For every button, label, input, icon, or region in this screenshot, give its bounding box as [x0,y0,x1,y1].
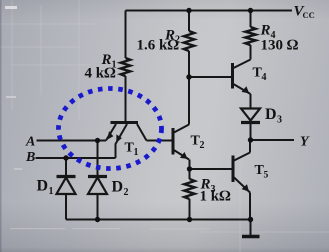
node: T2 emitter / R3 / T5 base [187,166,192,171]
node: T5 emitter / bus [248,217,253,222]
wire: R4 bottom to T4 collector [250,45,252,60]
resistor R4 [245,27,255,45]
svg-text:1: 1 [134,147,139,158]
resistor R3 [189,169,191,179]
node: D2 / bus [95,217,100,222]
transistor T5 [232,156,235,183]
svg-text:A: A [25,134,35,149]
node: T2 collector / T4 base [186,74,191,79]
svg-text:1 kΩ: 1 kΩ [200,189,232,205]
wire: R2 branch top [188,11,190,32]
T1 emitter 2 arrow [116,134,122,142]
highlight ellipse around T1 [59,89,162,169]
wire: T1 collector to T2 base [147,140,173,142]
node: A line / D2 [95,138,100,143]
node: D3 / Y / T5 collector [248,137,253,142]
wire: Vcc top rail [126,10,293,12]
diode D3 [241,109,260,121]
diode D1 [65,158,67,176]
node: R3 / bus [187,217,192,222]
wire: R2 bottom to T2 collector [188,51,190,125]
wire: input B line [36,157,116,159]
svg-text:B: B [25,150,35,165]
wire: ground bus [66,219,251,221]
svg-text:130 Ω: 130 Ω [261,38,299,54]
wire: R1 to T1 base [125,76,127,121]
wire: input A line [37,140,107,142]
resistor R1 [121,58,131,76]
svg-text:D: D [37,178,49,195]
resistor R2 [184,31,194,51]
svg-text:4 kΩ: 4 kΩ [85,66,117,82]
svg-text:D: D [265,106,277,123]
T2 emitter arrow [180,152,188,159]
T4 emitter arrow [242,86,250,93]
emitter arrowheads [107,86,249,191]
svg-text:2: 2 [124,187,129,198]
wire: R1 branch top [125,11,127,59]
svg-text:R: R [260,23,271,39]
svg-text:D: D [112,179,124,196]
node: rail-R2 [186,8,191,13]
transistor T1 (multi-emitter) [111,121,139,124]
svg-text:1: 1 [49,186,54,197]
svg-text:2: 2 [200,140,205,151]
transistor T2 [172,128,175,155]
node: B line / D1 [63,155,68,160]
T5 emitter arrow [242,184,249,191]
wire: output Y line [251,139,295,141]
T1 emitter 1 arrow [107,131,113,140]
wire: R4 branch top [250,11,252,28]
svg-text:1.6 kΩ: 1.6 kΩ [137,38,180,54]
svg-text:3: 3 [277,115,282,126]
svg-text:Y: Y [300,135,310,150]
ground [250,220,252,236]
svg-text:4: 4 [262,72,267,83]
svg-text:5: 5 [264,170,269,180]
svg-text:CC: CC [303,10,315,20]
node: rail-R4 [248,8,253,13]
transistor T4 [231,63,234,89]
wire: T4 base lead from T2 collector [189,76,231,78]
wire: T2 emitter junction to T5 base [190,168,233,170]
diode D2 [97,141,99,177]
